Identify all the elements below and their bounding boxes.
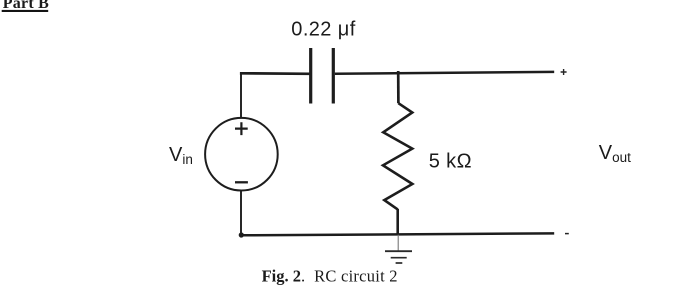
resistor R1 zigzag body — [383, 103, 412, 209]
heading Part B (cut off at top) — [2, 0, 49, 12]
voltage source minus sign — [235, 181, 248, 183]
- terminal mark — [565, 233, 569, 235]
svg-text:Vin: Vin — [169, 144, 193, 167]
capacitor C1 : right plate — [332, 48, 335, 104]
resistor R1 bottom lead to rail — [396, 209, 399, 235]
capacitor C1 0.22 uf : left plate — [309, 48, 312, 104]
wire: top horizontal, source top corner to capacitor left plate — [240, 72, 310, 75]
resistor R1 lead from top wire — [397, 71, 400, 103]
svg-text:0.22 μf: 0.22 μf — [291, 18, 355, 40]
svg-text:Fig. 2. RC circuit 2: Fig. 2. RC circuit 2 — [262, 267, 398, 286]
wire: left vertical from top wire down to source circle top — [240, 72, 242, 118]
voltage source plus sign — [235, 122, 248, 135]
wire: top horizontal from capacitor right plate to + terminal — [335, 72, 554, 74]
wire: bottom rail to - terminal — [240, 233, 554, 235]
ground bar 1 — [385, 250, 412, 252]
+ terminal mark — [561, 69, 567, 75]
voltage source U1 circle — [205, 118, 278, 191]
svg-text:5 kΩ: 5 kΩ — [429, 151, 472, 173]
junction dot bottom-left corner — [239, 232, 244, 237]
svg-text:Vout: Vout — [599, 142, 631, 165]
ground bar 2 — [391, 257, 407, 259]
wire: left vertical from source circle bottom to bottom rail — [240, 190, 242, 235]
ground stem — [397, 235, 399, 251]
ground bar 3 — [396, 262, 403, 264]
